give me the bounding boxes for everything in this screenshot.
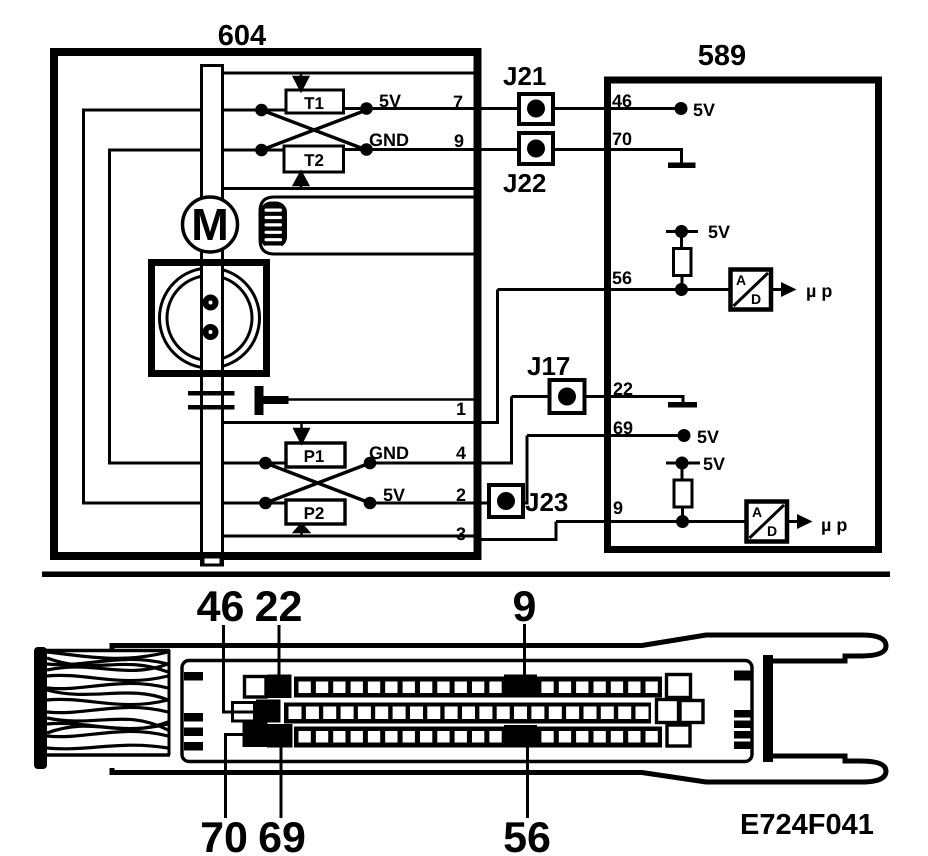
box 589 border [608,80,879,550]
connector J23 [489,485,523,517]
leader 70 [226,735,244,819]
arrow into P1 [295,423,309,444]
svg-text:589: 589 [698,40,746,72]
svg-text:5V: 5V [708,222,730,242]
resistor upper [674,249,692,276]
wire T1 left [82,109,286,112]
svg-text:5V: 5V [379,91,401,111]
wire 69 row in 589 [527,434,684,437]
svg-text:A: A [736,272,746,288]
potentiometer T2 [284,146,344,172]
wire P2 5V row pin2 to J23 [370,436,527,504]
arrow into P2 [295,524,309,536]
svg-text:604: 604 [218,20,266,52]
svg-text:5V: 5V [703,454,725,474]
svg-text:7: 7 [453,92,463,112]
wire 5V row pin7 to J21 to 589 pin46 [344,107,682,110]
connector latch bar right [763,655,773,762]
wire T2 wiper [222,187,477,190]
cable bundle top edge [44,649,170,652]
svg-text:5V: 5V [693,100,715,120]
wire cross P1-P2 a [266,463,371,503]
potentiometer P2 [286,500,345,524]
svg-text:µ p: µ p [821,515,847,535]
wire cross T1-T2 b [262,110,367,150]
svg-text:T2: T2 [304,151,324,170]
shaft screw lower [203,324,219,340]
pin 22 black [268,675,292,699]
cable bundle strands [47,652,168,749]
junction T2 left [255,144,268,157]
junction P2 left [259,497,272,510]
wire T2 left [108,149,284,152]
svg-text:µ p: µ p [806,281,832,301]
svg-text:69: 69 [613,418,633,438]
pin 9 black [504,675,537,698]
connector J17 [550,380,585,413]
potentiometer T1 [286,90,344,113]
pin row top strip [294,677,662,698]
svg-text:46: 46 [612,91,632,111]
svg-text:70: 70 [612,129,632,149]
svg-text:22: 22 [255,583,303,631]
svg-text:56: 56 [503,814,551,856]
throttle plate outer circle [160,268,260,368]
svg-text:1: 1 [456,399,466,419]
svg-text:GND: GND [369,443,409,463]
leader 22 [278,625,281,676]
connector shell bottom [112,756,886,782]
svg-text:A: A [752,504,762,520]
svg-text:5V: 5V [383,485,405,505]
cable bundle right edge [168,650,171,755]
svg-text:P2: P2 [304,504,325,523]
pin row top contacts [299,682,658,694]
node 5V pin69 [678,427,720,447]
connector J21 [519,94,553,124]
separator bar [42,572,890,578]
svg-text:69: 69 [258,814,306,856]
A/D converter upper [731,270,772,310]
throttle body box [152,263,267,374]
wire resistor upper to node [681,276,684,290]
motor M circle [183,197,238,252]
wire P1 left [108,462,286,465]
keying plug mid-left [657,700,679,723]
pin 56 black [504,725,537,748]
junction T1 left [255,104,268,117]
svg-text:2: 2 [456,485,466,505]
ground pin 70 [668,163,696,169]
wire P2 left [82,502,286,505]
arrow into T1 [294,73,308,91]
arrow into T2 [294,172,308,189]
pin 46 top white [245,677,267,698]
ground pin 22 [668,402,697,408]
wire P2 bottom / pin 3 [224,522,556,540]
shaft screw upper [203,295,219,311]
cable bundle bottom edge [44,753,170,756]
wire cross T1-T2 a [262,110,367,150]
svg-text:5V: 5V [697,427,719,447]
leader 46 [224,625,255,712]
idle lever vertical [255,386,264,415]
svg-text:D: D [751,291,761,307]
svg-text:P1: P1 [304,447,325,466]
junction node 9 [676,515,689,528]
throttle plate inner circle [167,276,252,361]
leader 56 [526,746,529,818]
5V rail lower [666,454,725,481]
svg-text:9: 9 [513,583,537,631]
wire P1 wiper / pin 1 to pin 56 [224,290,498,423]
connector inner body [182,661,752,762]
A/D converter lower [747,502,788,542]
potentiometer P1 [286,443,345,467]
pin 69 black [267,724,293,748]
svg-text:4: 4 [456,443,466,463]
leader 9 [523,624,526,678]
5V rail upper [666,222,730,249]
box 604 border [54,52,478,556]
strain relief comb left [184,672,203,751]
svg-text:22: 22 [613,379,633,399]
strain relief comb right [734,671,752,750]
svg-text:J22: J22 [503,168,546,198]
wire resistor lower to node [681,507,684,522]
wire 56 row in 589 [498,288,731,291]
keying plug bottom [667,725,690,746]
resistor lower [674,480,692,507]
arrow to uP upper [771,281,832,301]
node 5V pin46 [675,100,716,120]
solenoid coil windings [260,202,287,249]
pin 70 black [243,723,268,748]
wire T-lever to pin 1 [288,398,477,401]
connector J22 [519,133,553,164]
junction P1 right [364,457,377,470]
pin 46 middle white [233,703,255,722]
cable bundle end cap [34,647,47,769]
wire left outer (T1 to P2) [82,110,85,503]
wire P1 GND row pin4 to J17 [370,397,512,464]
shaft tick lower [188,405,235,410]
svg-text:9: 9 [613,498,623,518]
idle lever arm [264,396,289,404]
junction node 56 [675,283,688,296]
shaft tip below box [203,557,221,565]
svg-text:T1: T1 [304,94,324,113]
junction T2 right [360,143,373,156]
svg-text:3: 3 [456,524,466,544]
pin row middle contacts [289,707,649,720]
shaft tick upper [188,391,235,396]
pin middle black [256,700,281,723]
pin row bottom contacts [299,731,658,743]
pin row middle strip [284,703,651,724]
svg-text:J17: J17 [527,351,570,381]
svg-text:J21: J21 [503,61,546,91]
leader 69 [280,746,283,818]
wire T1 wiper [222,72,477,75]
keying plug mid-right [680,701,703,723]
wire GND row pin9 to J22 to 589 pin70 [344,150,682,164]
svg-text:D: D [767,523,777,539]
junction P2 right [364,497,377,510]
svg-text:GND: GND [369,130,409,150]
wire cross P1-P2 b [266,463,371,503]
wire 9 row in 589 [556,520,746,523]
svg-text:J23: J23 [525,487,568,517]
svg-text:E724F041: E724F041 [740,809,874,841]
arrow to uP lower [787,514,847,535]
junction T1 right [360,102,373,115]
wire 22 to ground in 589 [512,397,684,404]
throttle shaft [202,66,223,566]
connector shell top [112,635,886,661]
solenoid body [260,197,478,254]
svg-text:70: 70 [200,814,248,856]
pin row bottom strip [294,727,662,748]
svg-text:M: M [191,199,229,250]
svg-text:9: 9 [454,131,464,151]
svg-text:56: 56 [612,268,632,288]
wire left inner (T2 to P1) [108,150,111,463]
keying plug top [667,675,691,698]
svg-text:46: 46 [197,583,245,631]
junction P1 left [259,457,272,470]
